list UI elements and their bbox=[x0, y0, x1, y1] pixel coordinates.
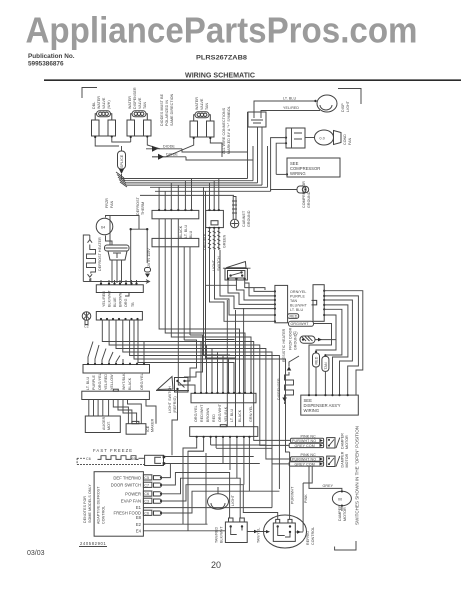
svg-text:TAN/YEL: TAN/YEL bbox=[257, 528, 261, 543]
svg-text:ORG/YEL: ORG/YEL bbox=[194, 405, 198, 422]
svg-text:YEL/BLK: YEL/BLK bbox=[224, 406, 228, 422]
svg-text:SWITCHES SHOWN IN THE "OPEN" P: SWITCHES SHOWN IN THE "OPEN" POSITION bbox=[355, 426, 360, 525]
svg-text:DBL: DBL bbox=[92, 102, 96, 109]
switch light switch SW1 bbox=[223, 262, 251, 281]
defrost heater element bbox=[83, 235, 95, 282]
svg-text:DIODES MUST BE: DIODES MUST BE bbox=[160, 93, 164, 126]
svg-text:YELLOW: YELLOW bbox=[110, 374, 114, 390]
svg-text:MOTOR: MOTOR bbox=[343, 507, 347, 521]
svg-text:ORG/YEL: ORG/YEL bbox=[140, 373, 144, 390]
wire diode outputs bbox=[182, 112, 253, 160]
label LIGHT SWITCH bbox=[212, 256, 221, 271]
box SEE DISPENSER ASSY WIRING bbox=[301, 394, 359, 415]
svg-text:E4: E4 bbox=[136, 528, 142, 533]
svg-text:POWER: POWER bbox=[125, 492, 141, 497]
diode D2 bbox=[152, 153, 186, 160]
svg-text:LIGHT: LIGHT bbox=[231, 494, 235, 506]
svg-text:03/03: 03/03 bbox=[27, 550, 45, 557]
svg-text:MAKER: MAKER bbox=[151, 418, 155, 432]
disp light bracket bbox=[338, 89, 361, 105]
svg-text:COMPRESSOR: COMPRESSOR bbox=[302, 181, 306, 208]
diode D1 bbox=[146, 145, 182, 152]
svg-text:LT. BLU: LT. BLU bbox=[283, 97, 297, 101]
box ice maker bbox=[126, 418, 154, 434]
board adaptive defrost control bbox=[94, 472, 143, 537]
svg-text:TAN: TAN bbox=[324, 362, 328, 370]
svg-text:DEF THERMO: DEF THERMO bbox=[113, 475, 141, 480]
lamp fresh food light bbox=[208, 494, 229, 510]
svg-text:DAMPER: DAMPER bbox=[341, 433, 345, 449]
damper switch SW3 group bbox=[289, 453, 340, 467]
hatched leads below B3 bbox=[208, 228, 220, 250]
bracket switches note bbox=[335, 541, 356, 550]
svg-text:FAN: FAN bbox=[110, 200, 114, 208]
wire control right to bus columns bbox=[309, 291, 363, 395]
svg-text:BLUE: BLUE bbox=[113, 297, 117, 307]
svg-text:BROWN: BROWN bbox=[206, 407, 210, 422]
compressor ground lug bbox=[271, 186, 309, 193]
wire strip D fanout bbox=[102, 320, 234, 393]
svg-text:PUR/WHT: PUR/WHT bbox=[291, 486, 295, 504]
bracket C1 bbox=[125, 292, 129, 296]
svg-text:00: 00 bbox=[338, 498, 342, 502]
lamp disp light bbox=[314, 95, 337, 112]
svg-text:TAN/RED: TAN/RED bbox=[215, 526, 219, 543]
svg-text:RED: RED bbox=[315, 356, 319, 364]
svg-text:C3: C3 bbox=[144, 499, 149, 503]
label COND FAN bbox=[343, 134, 352, 145]
svg-text:LT. BLU: LT. BLU bbox=[290, 308, 304, 312]
wire nested loops upper mid bbox=[159, 219, 251, 393]
svg-text:DIODE: DIODE bbox=[163, 145, 175, 149]
svg-text:FAN: FAN bbox=[348, 137, 352, 145]
svg-text:FRZR DOOR: FRZR DOOR bbox=[289, 327, 293, 350]
svg-text:E2: E2 bbox=[136, 522, 142, 527]
wire valve V3 leads bbox=[152, 137, 222, 157]
fast freeze thermo line bbox=[77, 456, 145, 465]
wire relay feeds bbox=[271, 138, 286, 192]
label DISPENSER RESISTIC HEATER bbox=[277, 328, 286, 400]
box SEE COMPRESSOR WIRING bbox=[276, 158, 340, 177]
svg-text:MOTOR: MOTOR bbox=[345, 435, 349, 449]
switch refrig light switch SW5 bbox=[156, 377, 189, 438]
svg-text:ALL WIRE CONNECTIONS: ALL WIRE CONNECTIONS bbox=[222, 107, 226, 154]
wire main harness bundle bbox=[122, 174, 271, 195]
svg-text:DOOR SWITCH: DOOR SWITCH bbox=[111, 483, 141, 488]
connector strip F bbox=[82, 389, 150, 399]
svg-text:PUR/WHT NO: PUR/WHT NO bbox=[292, 439, 316, 443]
svg-text:ORG/WHT: ORG/WHT bbox=[291, 322, 310, 326]
wire valve V1 leads bbox=[95, 136, 131, 146]
labels refrig control bbox=[257, 527, 316, 545]
connector tab C6 bbox=[143, 478, 240, 518]
svg-text:RED: RED bbox=[212, 414, 216, 422]
wire heater return bbox=[83, 279, 149, 284]
svg-text:WIRING: WIRING bbox=[304, 408, 320, 413]
svg-text:CONTROL: CONTROL bbox=[311, 527, 315, 545]
svg-text:(2): (2) bbox=[293, 331, 298, 335]
svg-text:WIRING: WIRING bbox=[290, 171, 306, 176]
capsule ORG/WHT bbox=[289, 321, 314, 326]
svg-text:RED/WHT: RED/WHT bbox=[200, 404, 204, 422]
svg-text:POLARIZED IN: POLARIZED IN bbox=[165, 100, 169, 126]
svg-text:DIODE: DIODE bbox=[166, 153, 178, 157]
svg-text:GREY COM: GREY COM bbox=[295, 444, 315, 448]
svg-text:C7: C7 bbox=[144, 483, 149, 487]
ground cabinet key bbox=[230, 197, 238, 228]
svg-text:Publication No.: Publication No. bbox=[28, 53, 75, 60]
svg-text:C2: C2 bbox=[84, 325, 89, 329]
svg-text:AppliancePartsPros.com: AppliancePartsPros.com bbox=[26, 10, 418, 51]
svg-text:VALVE: VALVE bbox=[200, 98, 204, 110]
svg-text:EVAP FAN: EVAP FAN bbox=[121, 499, 141, 504]
svg-text:DISP: DISP bbox=[341, 103, 345, 112]
switch freezer door SW4 bbox=[225, 518, 266, 543]
svg-text:WATER: WATER bbox=[97, 96, 101, 109]
resistor R1 capsule bbox=[313, 351, 320, 395]
connector strip E bbox=[83, 363, 150, 373]
svg-text:GROUND: GROUND bbox=[307, 191, 311, 208]
svg-text:SAME DIRECTION: SAME DIRECTION bbox=[170, 93, 174, 126]
svg-text:LIGHT: LIGHT bbox=[346, 100, 350, 112]
motor damper M3 bbox=[332, 490, 351, 506]
svg-text:WIRING SCHEMATIC: WIRING SCHEMATIC bbox=[185, 71, 255, 80]
dispenser resistic heater element bbox=[282, 356, 299, 404]
svg-text:DEFROST: DEFROST bbox=[136, 196, 140, 215]
svg-text:PINK: PINK bbox=[304, 494, 308, 503]
label DISP LIGHT bbox=[341, 100, 350, 112]
labels B3 leads bbox=[203, 233, 227, 250]
label COMPRESSOR GROUND bbox=[302, 181, 311, 208]
svg-text:(REFRIG): (REFRIG) bbox=[173, 396, 177, 413]
connector strip D bbox=[96, 312, 142, 321]
water valve V1 coil bbox=[92, 111, 116, 136]
svg-text:TB: TB bbox=[131, 302, 135, 307]
svg-text:LIGHT SWITCH: LIGHT SWITCH bbox=[168, 386, 172, 413]
wire staircase into control left bbox=[210, 250, 275, 321]
svg-text:TAN: TAN bbox=[205, 102, 209, 110]
svg-text:THERM: THERM bbox=[141, 202, 145, 215]
label DEFROST THERM bbox=[136, 196, 145, 215]
wire valve V2 leads bbox=[131, 136, 160, 149]
wire strip F to auger bbox=[89, 400, 156, 424]
svg-text:240582901: 240582901 bbox=[80, 541, 106, 546]
svg-text:LT. BLU: LT. BLU bbox=[86, 376, 90, 390]
connector housing boxes B1 B2 bbox=[152, 209, 199, 247]
svg-text:FAST FREEZE: FAST FREEZE bbox=[93, 448, 133, 453]
svg-text:MARKED BY A "+" SYMBOL: MARKED BY A "+" SYMBOL bbox=[227, 106, 231, 154]
svg-text:0.0: 0.0 bbox=[320, 137, 325, 141]
svg-text:FRZR: FRZR bbox=[105, 198, 109, 208]
wire light switch leads bbox=[224, 280, 265, 290]
label damper sw2 bbox=[341, 451, 350, 467]
connector strip C bbox=[96, 280, 143, 293]
label damper sw1 bbox=[341, 433, 350, 449]
svg-text:BLACK: BLACK bbox=[238, 409, 242, 422]
svg-text:CABINET: CABINET bbox=[242, 210, 246, 227]
svg-text:C6: C6 bbox=[86, 457, 91, 461]
svg-text:COND: COND bbox=[343, 134, 347, 145]
wire damper feeds bbox=[303, 466, 342, 531]
ground cabinet screw bbox=[82, 312, 91, 325]
svg-text:GREEN: GREEN bbox=[223, 234, 227, 248]
svg-text:DEFROST HEATER: DEFROST HEATER bbox=[98, 237, 102, 271]
damper switch SW2 group bbox=[289, 434, 340, 448]
defrost thermostat bbox=[105, 216, 130, 283]
motor cond fan M1 bbox=[305, 130, 341, 145]
svg-text:WATER: WATER bbox=[195, 97, 199, 110]
wire long drop pair bbox=[204, 187, 206, 256]
svg-text:DAMPER: DAMPER bbox=[338, 505, 342, 521]
svg-text:DENOTES FOR: DENOTES FOR bbox=[83, 496, 87, 523]
svg-text:CONTROL: CONTROL bbox=[102, 506, 106, 524]
connector control housing right bbox=[312, 285, 326, 322]
svg-text:MOT.: MOT. bbox=[107, 421, 111, 430]
svg-text:GROUND: GROUND bbox=[294, 333, 298, 350]
svg-text:64: 64 bbox=[101, 226, 105, 230]
svg-text:PURPLE: PURPLE bbox=[290, 295, 305, 299]
label 240582901 bbox=[79, 541, 107, 547]
wire right staircase to switches bbox=[201, 300, 291, 508]
splice marker bbox=[145, 268, 151, 278]
splice S1 bbox=[118, 146, 126, 174]
svg-text:PLRS267ZAB8: PLRS267ZAB8 bbox=[196, 55, 247, 62]
svg-text:GRN/YEL: GRN/YEL bbox=[249, 406, 253, 422]
label damper motor bbox=[338, 505, 347, 521]
svg-text:C5: C5 bbox=[144, 476, 149, 480]
svg-text:ORG/YEL: ORG/YEL bbox=[98, 373, 102, 390]
svg-text:VALVE: VALVE bbox=[138, 97, 142, 109]
water valve V3 coil bbox=[190, 112, 214, 137]
svg-text:ORN/YEL: ORN/YEL bbox=[290, 290, 306, 294]
svg-text:PUR/WHT NO: PUR/WHT NO bbox=[292, 457, 316, 461]
wire left diagonal drop to strip E bbox=[88, 342, 144, 365]
relay compressor relay K1 bbox=[285, 128, 305, 148]
svg-text:SOME MODELS ONLY: SOME MODELS ONLY bbox=[88, 484, 92, 523]
svg-text:20 IN 115V: 20 IN 115V bbox=[147, 248, 151, 267]
title rule bbox=[44, 79, 461, 81]
wire B1 pins up bbox=[159, 179, 191, 211]
labels control rows bbox=[290, 290, 308, 312]
note ALL WIRE CONNECTIONS bbox=[222, 106, 231, 154]
motor evap fan M2 bbox=[96, 216, 139, 246]
svg-text:65: 65 bbox=[132, 457, 136, 461]
labels strip E wires bbox=[86, 373, 144, 390]
svg-text:WATER: WATER bbox=[128, 96, 132, 109]
svg-text:BLACK: BLACK bbox=[128, 377, 132, 390]
label DENOTES SOME MODELS bbox=[83, 484, 92, 523]
labels B1-B2 wires bbox=[179, 224, 193, 238]
wire plug to disp light bbox=[254, 101, 320, 112]
water valve V1 label bbox=[92, 96, 111, 109]
power plug P1 bbox=[248, 112, 266, 127]
labels strip C wires bbox=[102, 290, 128, 307]
resistor R2 capsule bbox=[322, 354, 329, 395]
svg-text:RESISTIC HEATER: RESISTIC HEATER bbox=[282, 328, 286, 362]
relay box B3 bbox=[206, 179, 224, 229]
svg-text:BLK/WHT: BLK/WHT bbox=[108, 290, 112, 307]
svg-text:LT. BLU: LT. BLU bbox=[184, 224, 188, 238]
svg-text:(WH): (WH) bbox=[107, 100, 111, 109]
label CABINET GROUND bbox=[242, 210, 251, 227]
svg-text:BLACK: BLACK bbox=[179, 225, 183, 238]
svg-text:DAMPER: DAMPER bbox=[341, 451, 345, 467]
wire B2 drops bbox=[184, 247, 190, 340]
svg-text:E1: E1 bbox=[136, 505, 142, 510]
svg-text:TAN: TAN bbox=[290, 299, 298, 303]
svg-text:AUGER: AUGER bbox=[102, 416, 106, 430]
connector strip G (mid) bbox=[191, 392, 256, 403]
wire E1 E2 E4 rows bbox=[143, 508, 272, 531]
svg-text:REFRIG: REFRIG bbox=[306, 531, 310, 545]
svg-text:YEL/RED: YEL/RED bbox=[283, 106, 299, 110]
svg-text:ADAPTIVE DEFROST: ADAPTIVE DEFROST bbox=[97, 486, 101, 524]
capsule RED bbox=[288, 314, 299, 319]
wire plug bundle drop bbox=[248, 127, 268, 187]
relay fast freeze K2 bbox=[145, 437, 260, 466]
svg-text:ICE: ICE bbox=[146, 425, 150, 432]
svg-text:PURPLE: PURPLE bbox=[92, 375, 96, 390]
label FRZR DOOR GROUND bbox=[289, 327, 298, 350]
svg-text:ORG: ORG bbox=[124, 298, 128, 307]
connector strip H (mid lower) bbox=[190, 425, 258, 438]
connector tab C3 bbox=[143, 485, 277, 520]
connector tab C7 bbox=[143, 473, 229, 519]
svg-text:BLU: BLU bbox=[189, 230, 193, 238]
water valve V2 label bbox=[128, 87, 147, 109]
box auger motor bbox=[85, 416, 120, 433]
connector control housing left bbox=[274, 285, 288, 322]
svg-text:5995386876: 5995386876 bbox=[28, 61, 64, 68]
svg-text:BLU/WHT: BLU/WHT bbox=[290, 303, 308, 307]
frzr door ground lug bbox=[300, 336, 336, 343]
note bracket top-left bbox=[82, 88, 97, 99]
labels freezer switch bbox=[215, 526, 224, 543]
svg-text:20: 20 bbox=[211, 560, 221, 570]
connector tab C5 bbox=[143, 464, 170, 481]
labels strip G bbox=[194, 403, 253, 422]
svg-text:BROWN: BROWN bbox=[119, 292, 123, 307]
svg-text:DISPENSER: DISPENSER bbox=[133, 87, 137, 109]
wire pur/wht drop to refrig control bbox=[289, 452, 291, 519]
svg-text:LT. BLU: LT. BLU bbox=[230, 408, 234, 422]
note DIODES MUST BE POLARIZED bbox=[160, 93, 174, 126]
svg-text:VALVE: VALVE bbox=[102, 97, 106, 109]
svg-text:GREY: GREY bbox=[323, 484, 334, 488]
svg-text:RED: RED bbox=[290, 314, 298, 318]
svg-text:MOTOR: MOTOR bbox=[345, 453, 349, 467]
label FRZR FAN bbox=[105, 198, 114, 208]
water valve V2 coil bbox=[127, 111, 151, 136]
svg-text:TAN: TAN bbox=[143, 101, 147, 109]
wire freezer fan T-branch bbox=[131, 229, 148, 283]
svg-text:YEL/RED: YEL/RED bbox=[104, 374, 108, 390]
svg-text:ORG/WHT: ORG/WHT bbox=[218, 403, 222, 422]
svg-text:C6: C6 bbox=[144, 511, 149, 515]
label LIGHT SWITCH (REFRIG) bbox=[168, 386, 177, 413]
wire strip H drops bbox=[183, 438, 249, 531]
svg-text:BLK/WHT: BLK/WHT bbox=[220, 526, 224, 543]
water valve V3 label bbox=[195, 97, 209, 110]
svg-text:SPLICE: SPLICE bbox=[120, 154, 124, 168]
svg-text:GREY COM: GREY COM bbox=[295, 462, 315, 466]
svg-text:LIGHT: LIGHT bbox=[212, 259, 216, 271]
svg-text:GROUND: GROUND bbox=[247, 210, 251, 227]
svg-text:E8: E8 bbox=[136, 515, 142, 520]
svg-text:WHT/BLK: WHT/BLK bbox=[122, 373, 126, 390]
wire left-to-right harness rows bbox=[183, 445, 272, 494]
splice hatch bundle bbox=[116, 172, 127, 187]
svg-text:C6: C6 bbox=[144, 492, 149, 496]
svg-text:YEL/RED: YEL/RED bbox=[102, 291, 106, 307]
refrig control ellipse bbox=[264, 515, 307, 548]
connector tab C4 bbox=[143, 491, 279, 515]
